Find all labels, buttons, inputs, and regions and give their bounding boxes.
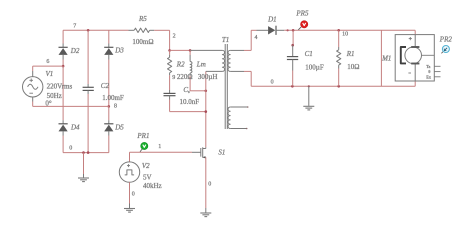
svg-text:1: 1	[158, 144, 161, 150]
svg-text:0: 0	[69, 145, 72, 151]
svg-text:0: 0	[271, 79, 274, 85]
svg-text:V1: V1	[46, 70, 54, 78]
svg-text:9: 9	[172, 75, 175, 81]
svg-text:D3: D3	[114, 47, 124, 55]
svg-text:T1: T1	[222, 36, 229, 44]
svg-text:PR5: PR5	[295, 10, 309, 18]
svg-text:θ: θ	[428, 69, 430, 74]
svg-text:100µF: 100µF	[305, 64, 324, 72]
svg-text:0: 0	[208, 182, 211, 188]
svg-text:7: 7	[73, 23, 76, 29]
svg-text:6: 6	[46, 59, 49, 65]
svg-text:0: 0	[132, 191, 135, 197]
svg-text:D1: D1	[267, 15, 277, 23]
svg-text:2: 2	[173, 34, 176, 40]
svg-text:1.00mF: 1.00mF	[102, 94, 124, 102]
svg-text:R2: R2	[176, 60, 185, 68]
svg-text:300µH: 300µH	[198, 73, 218, 81]
svg-text:D5: D5	[114, 123, 124, 131]
svg-text:D2: D2	[70, 47, 80, 55]
svg-text:R5: R5	[138, 15, 147, 23]
svg-text:S1: S1	[218, 148, 225, 156]
svg-text:D4: D4	[70, 123, 80, 131]
svg-text:M1: M1	[381, 54, 391, 62]
svg-text:220Ω: 220Ω	[177, 73, 193, 81]
svg-text:8: 8	[114, 104, 117, 110]
svg-text:C1: C1	[305, 50, 313, 58]
svg-text:10Ω: 10Ω	[347, 63, 359, 71]
svg-text:220Vrms: 220Vrms	[47, 82, 73, 90]
svg-text:R1: R1	[346, 50, 355, 58]
svg-text:PR2: PR2	[439, 35, 453, 43]
svg-text:40kHz: 40kHz	[143, 182, 162, 190]
svg-text:4: 4	[255, 35, 258, 41]
svg-text:0°: 0°	[45, 99, 52, 107]
svg-text:Lm: Lm	[196, 60, 206, 68]
svg-text:C2: C2	[101, 82, 110, 90]
svg-text:PR1: PR1	[136, 132, 149, 140]
svg-text:s: s	[188, 89, 190, 94]
svg-text:10: 10	[342, 32, 348, 38]
svg-text:100mΩ: 100mΩ	[132, 38, 153, 46]
svg-text:V2: V2	[142, 162, 150, 170]
svg-text:10.0nF: 10.0nF	[180, 98, 200, 106]
svg-text:5V: 5V	[143, 173, 152, 181]
